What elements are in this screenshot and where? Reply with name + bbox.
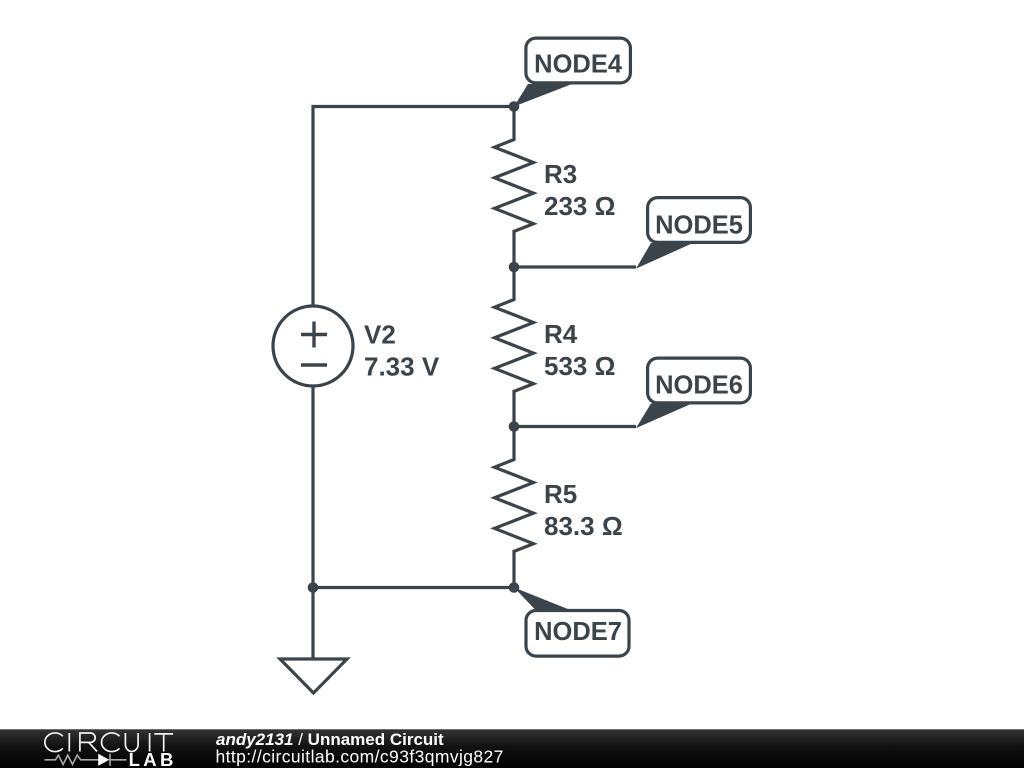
svg-text:83.3 Ω: 83.3 Ω <box>544 511 623 541</box>
svg-text:V2: V2 <box>364 320 396 350</box>
svg-text:233 Ω: 233 Ω <box>544 191 615 221</box>
svg-text:533 Ω: 533 Ω <box>544 351 615 381</box>
svg-text:R4: R4 <box>544 319 578 349</box>
svg-text:NODE7: NODE7 <box>534 618 622 646</box>
svg-text:NODE4: NODE4 <box>534 51 623 79</box>
svg-text:http://circuitlab.com/c93f3qmv: http://circuitlab.com/c93f3qmvjg827 <box>216 747 504 767</box>
svg-text:7.33 V: 7.33 V <box>364 352 440 382</box>
svg-text:NODE6: NODE6 <box>655 372 743 400</box>
svg-text:NODE5: NODE5 <box>655 212 743 240</box>
svg-text:R5: R5 <box>544 479 577 509</box>
svg-text:R3: R3 <box>544 159 577 189</box>
svg-text:LAB: LAB <box>129 749 177 768</box>
